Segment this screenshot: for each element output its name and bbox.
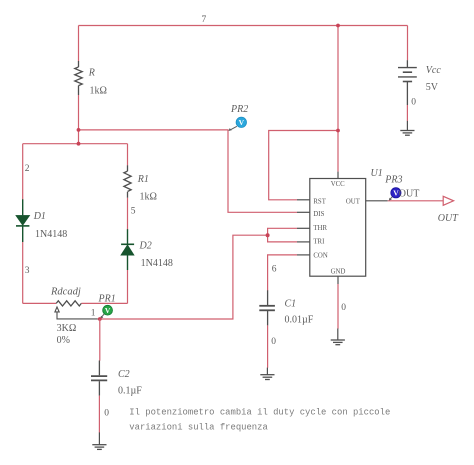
junction top rail / VCC drop — [336, 24, 340, 28]
pin CON stub — [297, 254, 310, 256]
wire between R1 and D2 — [127, 198, 129, 230]
battery Vcc 5V — [398, 60, 417, 105]
pin VCC label — [331, 181, 345, 188]
svg-text:R: R — [88, 68, 95, 79]
svg-text:3: 3 — [25, 266, 30, 276]
svg-text:0: 0 — [271, 337, 276, 347]
pin RST label — [313, 198, 326, 205]
svg-text:TRI: TRI — [313, 239, 325, 246]
wire TRI connection — [268, 235, 297, 242]
svg-text:5V: 5V — [426, 82, 439, 93]
svg-text:Vcc: Vcc — [426, 65, 442, 76]
wire CON to C1 — [268, 255, 297, 291]
value 1kΩ (R) — [90, 86, 107, 97]
label PR3 — [384, 175, 402, 186]
svg-text:D1: D1 — [33, 211, 46, 222]
pin RST stub — [297, 199, 310, 201]
resistor R1 — [124, 165, 131, 198]
annotation text line 1 — [129, 408, 390, 418]
probe PR3 net label OUT — [399, 189, 420, 200]
diode D2 (1N4148, cathode up) — [121, 229, 134, 270]
svg-text:Il potenziometro cambia il dut: Il potenziometro cambia il duty cycle co… — [129, 408, 390, 418]
wire OUT net — [388, 200, 444, 202]
pin OUT stub — [366, 200, 388, 202]
wire R bottom lead — [78, 95, 80, 144]
wire left branch upper (to D1) — [22, 144, 24, 200]
svg-text:OUT: OUT — [399, 189, 420, 200]
label R — [88, 68, 95, 79]
label OUT (net name at arrow) — [438, 213, 459, 224]
svg-text:V: V — [105, 306, 111, 315]
wire net 7 top rail — [79, 25, 408, 27]
value 1N4148 (D2) — [141, 258, 173, 269]
pin OUT label — [346, 198, 361, 205]
probe PR2 — [228, 117, 246, 131]
svg-text:D2: D2 — [139, 241, 152, 252]
svg-text:OUT: OUT — [438, 213, 459, 224]
value 5V — [426, 82, 439, 93]
node 6 label — [272, 264, 277, 274]
svg-text:5: 5 — [131, 207, 136, 217]
diode D1 (1N4148, cathode down) — [16, 199, 30, 242]
svg-text:R1: R1 — [137, 174, 149, 185]
junction THR/TRI — [266, 233, 270, 237]
svg-text:PR2: PR2 — [230, 104, 248, 115]
svg-text:0: 0 — [104, 409, 109, 419]
junction at R bottom / box top — [77, 142, 81, 146]
value 3KΩ (pot) — [57, 323, 77, 334]
value 0% (pot) — [57, 335, 70, 346]
svg-text:C1: C1 — [285, 299, 297, 310]
output terminal arrow OUT — [443, 196, 453, 205]
pin TRI label — [313, 239, 325, 246]
label U1 — [371, 168, 383, 179]
svg-text:RST: RST — [313, 198, 326, 205]
svg-text:variazioni sulla frequenza: variazioni sulla frequenza — [129, 423, 268, 433]
wire C2 to ground — [98, 396, 100, 433]
label Vcc — [426, 65, 442, 76]
svg-text:DIS: DIS — [313, 211, 324, 218]
label R1 — [137, 174, 149, 185]
pin CON label — [313, 253, 327, 260]
ground (battery) — [400, 121, 414, 135]
pin DIS stub — [297, 211, 310, 213]
node 1 label — [91, 309, 96, 319]
wire RST to VCC — [269, 131, 338, 200]
value 0.1µF (C2) — [118, 386, 142, 397]
wire battery to ground — [406, 105, 408, 121]
svg-text:C2: C2 — [118, 369, 130, 380]
wire bottom rail right of pot — [81, 302, 127, 304]
svg-text:GND: GND — [331, 269, 346, 276]
junction RST / VCC drop — [336, 129, 340, 133]
value 1N4148 (D1) — [35, 229, 67, 240]
capacitor C1 0.01uF — [259, 290, 275, 325]
wire node 1 down to C2 — [99, 319, 101, 361]
junction at R / DIS wire — [77, 128, 81, 132]
probe PR3 — [389, 188, 401, 201]
node 0 label (battery gnd) — [411, 98, 416, 108]
pin TRI stub — [297, 241, 310, 243]
svg-text:7: 7 — [202, 15, 207, 25]
pin THR stub — [297, 227, 310, 229]
svg-text:CON: CON — [313, 253, 327, 260]
wire THR connection — [268, 228, 297, 235]
svg-text:U1: U1 — [371, 168, 383, 179]
pin VCC stub — [337, 172, 339, 179]
annotation text line 2 — [129, 423, 268, 433]
ground (C2) — [92, 432, 106, 449]
svg-text:1: 1 — [91, 309, 96, 319]
svg-text:OUT: OUT — [346, 198, 361, 205]
wire D2 to bottom rail — [127, 270, 129, 303]
svg-text:THR: THR — [313, 225, 327, 232]
label C2 — [118, 369, 130, 380]
wire bottom rail left of pot — [23, 302, 57, 304]
wire battery drop from rail — [407, 26, 409, 61]
junction at wiper node 1 — [98, 317, 102, 321]
svg-text:0: 0 — [341, 303, 346, 313]
svg-text:3KΩ: 3KΩ — [57, 323, 77, 334]
node 7 label — [202, 15, 207, 25]
wire C1 to ground — [267, 325, 269, 367]
node 0 label (C1 gnd) — [271, 337, 276, 347]
node 0 label (U1 gnd) — [341, 303, 346, 313]
node 0 label (C2 gnd) — [104, 409, 109, 419]
svg-text:Rdcadj: Rdcadj — [50, 287, 81, 298]
pin GND label — [331, 269, 346, 276]
label PR2 — [230, 104, 248, 115]
svg-text:0.01µF: 0.01µF — [285, 315, 314, 326]
wire right branch top (to R1) — [127, 144, 129, 166]
wire from R to DIS pin (via PR2 corner) — [79, 130, 298, 212]
label D2 — [139, 241, 152, 252]
svg-text:1kΩ: 1kΩ — [90, 86, 107, 97]
wire VCC drop to U1 — [337, 26, 339, 172]
svg-text:1kΩ: 1kΩ — [140, 192, 157, 203]
label D1 — [33, 211, 46, 222]
probe PR1 — [100, 305, 112, 318]
node 3 label — [25, 266, 30, 276]
pin THR label — [313, 225, 327, 232]
svg-text:6: 6 — [272, 264, 277, 274]
label C1 — [285, 299, 297, 310]
pin DIS label — [313, 211, 324, 218]
svg-text:1N4148: 1N4148 — [35, 229, 67, 240]
svg-text:0.1µF: 0.1µF — [118, 386, 142, 397]
wire wiper to THR/TRI junction — [98, 235, 268, 319]
svg-text:PR1: PR1 — [98, 294, 116, 305]
potentiometer Rdcadj — [55, 301, 98, 319]
ground (C1) — [260, 368, 274, 380]
svg-text:2: 2 — [25, 164, 30, 174]
label PR1 — [98, 294, 116, 305]
value 1kΩ (R1) — [140, 192, 157, 203]
op IC U1 555 box — [310, 179, 366, 277]
svg-text:PR3: PR3 — [384, 175, 402, 186]
wire R top lead from rail — [78, 26, 80, 62]
ground (U1 GND) — [331, 329, 345, 345]
wire box top (node 7 to branches) — [23, 143, 128, 145]
svg-text:VCC: VCC — [331, 181, 345, 188]
svg-text:1N4148: 1N4148 — [141, 258, 173, 269]
label Rdcadj — [50, 287, 81, 298]
wire GND pin to ground — [337, 284, 339, 329]
svg-text:V: V — [239, 118, 245, 127]
node 5 label — [131, 207, 136, 217]
resistor R — [75, 61, 82, 95]
svg-text:0: 0 — [411, 98, 416, 108]
pin GND stub — [337, 276, 339, 284]
value 0.01µF (C1) — [285, 315, 314, 326]
node 2 label — [25, 164, 30, 174]
svg-text:0%: 0% — [57, 335, 70, 346]
capacitor C2 0.1uF — [91, 361, 107, 396]
wire left branch lower — [22, 242, 24, 303]
